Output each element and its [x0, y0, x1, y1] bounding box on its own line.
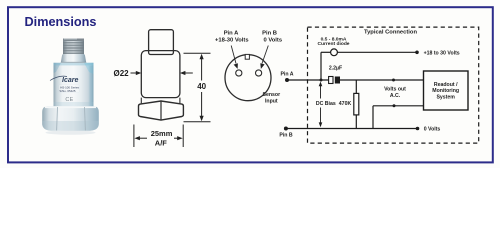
- svg-text:CE: CE: [65, 97, 73, 103]
- svg-text:Sensor: Sensor: [263, 92, 281, 98]
- svg-text:A/F: A/F: [155, 139, 168, 148]
- svg-text:40: 40: [197, 82, 206, 91]
- svg-text:Pin A: Pin A: [280, 71, 293, 77]
- svg-text:Pin A: Pin A: [224, 30, 239, 36]
- svg-text:Readout /: Readout /: [434, 82, 458, 88]
- svg-text:Current diode: Current diode: [317, 41, 349, 47]
- svg-text:+18-30 Volts: +18-30 Volts: [215, 37, 249, 43]
- svg-text:Typical Connection: Typical Connection: [364, 30, 417, 36]
- svg-text:25mm: 25mm: [151, 129, 173, 138]
- svg-text:Input: Input: [265, 98, 278, 104]
- svg-text:+18 to 30 Volts: +18 to 30 Volts: [424, 51, 460, 57]
- svg-text:Volts out: Volts out: [384, 87, 406, 93]
- svg-text:0 Volts: 0 Volts: [424, 127, 441, 133]
- svg-text:Ø22: Ø22: [114, 69, 130, 78]
- svg-text:470K: 470K: [339, 101, 352, 107]
- svg-text:0 Volts: 0 Volts: [264, 37, 283, 43]
- svg-text:DC Bias: DC Bias: [316, 101, 336, 107]
- svg-text:Dimensions: Dimensions: [25, 15, 97, 29]
- svg-text:System: System: [436, 94, 455, 100]
- svg-text:S/No. 65425: S/No. 65425: [59, 89, 75, 93]
- svg-text:Icare: Icare: [62, 77, 78, 84]
- svg-text:Pin B: Pin B: [279, 132, 293, 138]
- svg-text:Monitoring: Monitoring: [432, 88, 459, 94]
- svg-text:2.2µF: 2.2µF: [329, 66, 342, 72]
- svg-text:Pin B: Pin B: [262, 30, 277, 36]
- svg-text:A.C.: A.C.: [390, 93, 401, 99]
